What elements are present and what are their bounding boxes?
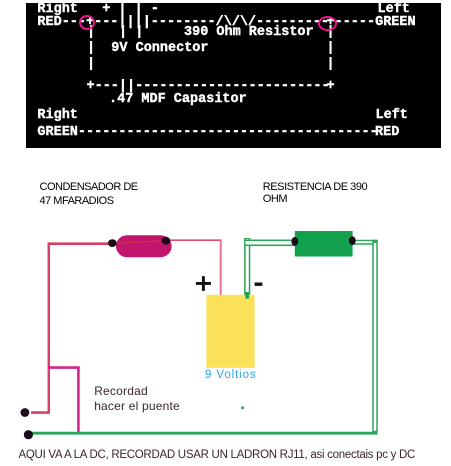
label condensador [40, 180, 138, 208]
junction dot capacitor right [162, 237, 171, 245]
row 1: Right + | | - Left [37, 2, 78, 17]
wire: crimson vertical left [48, 243, 51, 414]
bottom caption [19, 449, 416, 461]
row 4: 9V Connector [87, 41, 95, 54]
plus sign of battery [196, 276, 211, 291]
row 7: .47 MDF Capasitor [109, 92, 247, 107]
wire: magenta jumper vertical [77, 366, 80, 433]
minus sign of battery [255, 283, 263, 286]
terminal screenshot block [26, 3, 441, 148]
wire: crimson stub to terminal dot [31, 411, 49, 414]
note: recordad hacer el puente [94, 384, 180, 415]
wire: thin pink capacitor to corner [168, 239, 222, 241]
terminal dot left lower [24, 430, 33, 439]
tiny green speck node [241, 406, 244, 409]
junction dot resistor right [349, 236, 356, 245]
wire: green outlined vertical right [372, 240, 378, 432]
row 5: vertical wires [87, 57, 95, 71]
wire: green bottom bus [28, 432, 377, 435]
wire: pink vertical to battery plus [220, 239, 222, 296]
junction dot capacitor left [108, 239, 117, 247]
label resistencia [263, 181, 367, 206]
row 2: RED wire line with resistor [37, 15, 329, 30]
battery B1 body [206, 295, 254, 368]
wire: thin red through capacitor [112, 241, 166, 244]
wire: crimson horizontal from left corner to capacitor [48, 242, 114, 245]
junction dot resistor left [291, 237, 298, 246]
terminal dot left upper [21, 408, 30, 417]
wire: green stub entering battery [245, 293, 249, 299]
capacitor C1 body [116, 235, 172, 257]
wire: green outlined horizontal right of resistor [352, 240, 377, 245]
row 8: Right / Left [37, 108, 78, 123]
battery label 9 Voltios [205, 369, 257, 381]
wire: green outlined vertical battery minus [244, 238, 250, 295]
wire: magenta jumper horizontal [48, 366, 80, 369]
pink annotation circle left [79, 15, 95, 30]
row 6: capacitor branch [87, 79, 330, 93]
wire: green outlined horizontal to resistor [244, 240, 296, 247]
pink annotation circle right [318, 16, 337, 31]
resistor R1 body [295, 231, 353, 257]
row 3: 390 Ohm Resistor label [87, 25, 95, 38]
